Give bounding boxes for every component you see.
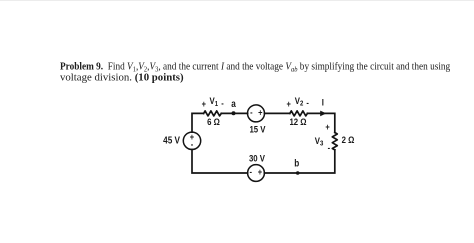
svg-text:V1: V1 (210, 96, 219, 108)
wire top-right segment with current arrow (307, 113, 334, 132)
wire right-bottom segment (264, 150, 334, 173)
svg-text:2 Ω: 2 Ω (342, 134, 355, 145)
problem statement text line 2 (60, 72, 184, 84)
svg-text:I: I (322, 97, 324, 108)
svg-text:-: - (328, 143, 331, 153)
wire node a segment (221, 112, 247, 114)
svg-text:+: + (258, 167, 263, 177)
voltage source 45V (183, 132, 200, 149)
svg-text:-: - (191, 140, 194, 150)
resistor R 12ohm (290, 111, 308, 116)
node a junction dot (232, 111, 236, 115)
svg-text:45 V: 45 V (163, 135, 180, 146)
node b junction dot (296, 171, 300, 175)
wire from 15V to 12ohm (265, 112, 290, 114)
svg-text:a: a (231, 98, 236, 109)
svg-text:+: + (325, 123, 330, 133)
svg-text:V3: V3 (315, 135, 324, 147)
svg-text:+: + (202, 100, 207, 110)
svg-text:15 V: 15 V (249, 124, 265, 135)
voltage source 15V (248, 105, 265, 122)
svg-text:30 V: 30 V (249, 153, 265, 164)
svg-text:+: + (287, 99, 292, 109)
svg-text:b: b (294, 158, 299, 169)
svg-text:-: - (221, 99, 224, 109)
svg-text:12 Ω: 12 Ω (289, 116, 306, 127)
resistor R 6ohm (204, 111, 222, 116)
problem statement text line 1 (60, 61, 450, 73)
wire top-left segment (192, 113, 204, 132)
svg-text:6 Ω: 6 Ω (207, 116, 220, 127)
current I arrowhead (320, 111, 326, 117)
svg-text:+: + (258, 108, 263, 118)
svg-text:-: - (250, 167, 253, 177)
resistor R 2ohm (vertical) (332, 133, 337, 150)
wire bottom-left segment (192, 150, 248, 174)
voltage source 30V (248, 165, 265, 182)
svg-text:-: - (306, 98, 309, 108)
svg-text:V2: V2 (295, 95, 304, 107)
svg-text:-: - (250, 108, 253, 118)
